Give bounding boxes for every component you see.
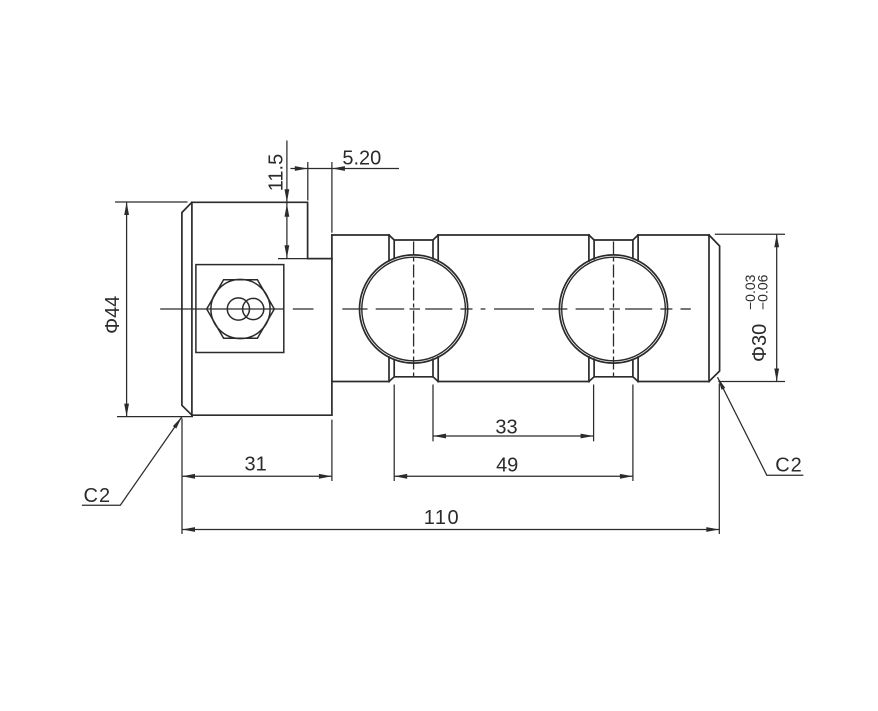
svg-text:−0.06: −0.06 xyxy=(754,274,770,310)
svg-text:31: 31 xyxy=(244,454,266,476)
svg-text:11.5: 11.5 xyxy=(266,154,288,191)
svg-text:Φ44: Φ44 xyxy=(102,296,124,334)
svg-text:Φ30: Φ30 xyxy=(749,324,771,362)
svg-text:5.20: 5.20 xyxy=(342,148,381,170)
svg-text:49: 49 xyxy=(496,455,518,477)
svg-text:C2: C2 xyxy=(775,455,803,477)
svg-text:C2: C2 xyxy=(84,485,112,507)
svg-text:110: 110 xyxy=(424,507,460,529)
svg-text:33: 33 xyxy=(495,417,517,439)
